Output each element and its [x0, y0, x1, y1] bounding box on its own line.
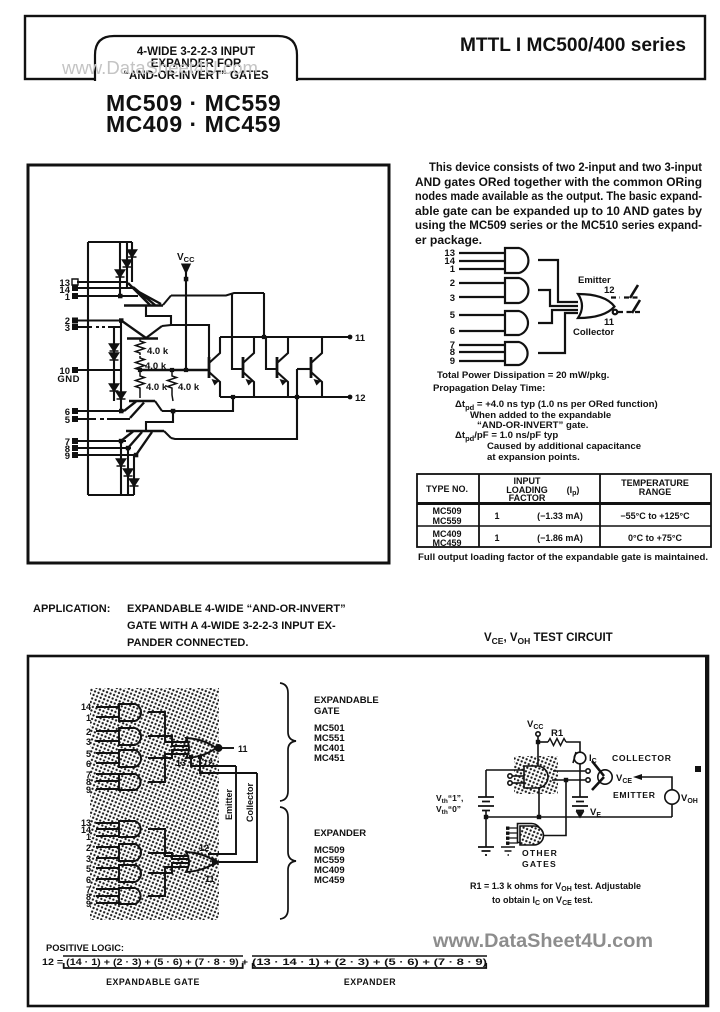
svg-text:VE: VE	[590, 807, 601, 819]
output transistor T2 base bar	[242, 357, 245, 378]
halftone background	[90, 688, 219, 920]
svg-text:MC559: MC559	[432, 516, 461, 526]
wire G4 to OR1	[148, 754, 188, 782]
svg-text:11: 11	[205, 874, 215, 884]
OR gate O1	[186, 738, 216, 758]
pin 10 GND wire	[77, 369, 121, 371]
multi-emitter transistor Q2	[122, 321, 146, 338]
svg-text:www.DataSheet4U.com: www.DataSheet4U.com	[432, 930, 653, 952]
wire G8 to OR2	[148, 867, 188, 896]
svg-text:TYPE NO.: TYPE NO.	[426, 484, 468, 494]
VCC node dot	[184, 277, 189, 282]
DUT stub2 terminal	[508, 774, 512, 778]
overline group 2	[252, 955, 487, 957]
pin 11 output rail	[220, 336, 350, 338]
svg-text:1: 1	[450, 264, 456, 275]
gate G8	[119, 888, 141, 904]
svg-text:13: 13	[176, 758, 186, 768]
svg-text:(−1.86 mA): (−1.86 mA)	[537, 533, 583, 543]
svg-text:5: 5	[450, 310, 456, 321]
battery bottom to rail	[485, 811, 487, 817]
svg-text:Total Power Dissipation = 20 m: Total Power Dissipation = 20 mW/pkg.	[437, 370, 609, 381]
Q1 base bar	[124, 304, 163, 307]
DUT input stub 3	[512, 782, 524, 784]
DUT top input from battery	[486, 769, 524, 771]
emitter vertical wire	[208, 766, 236, 854]
Q1 collector drop	[146, 306, 171, 325]
diode D3	[116, 270, 125, 277]
T3 base feed	[266, 337, 277, 369]
emitter arrow slash	[630, 285, 638, 298]
gate G3 inputs 5,6	[96, 753, 119, 763]
gate G2	[119, 728, 141, 745]
svg-text:1: 1	[86, 832, 91, 842]
svg-text:4.0 k: 4.0 k	[147, 346, 169, 357]
junction dots pins 7 8 9	[119, 439, 124, 444]
svg-text:PANDER CONNECTED.: PANDER CONNECTED.	[127, 637, 248, 649]
svg-text:GND: GND	[57, 374, 80, 385]
svg-text:www.DataSheet4U.com: www.DataSheet4U.com	[61, 58, 258, 78]
svg-text:4.0 k: 4.0 k	[145, 361, 167, 372]
svg-text:MC409 · MC459: MC409 · MC459	[106, 111, 281, 137]
gate G5 inputs 13,14,1	[96, 823, 119, 836]
svg-text:Caused by additional capacitan: Caused by additional capacitance	[487, 441, 641, 452]
output transistor T4 base bar	[310, 357, 313, 378]
svg-text:able gate can be expanded up t: able gate can be expanded up to 10 AND g…	[415, 204, 702, 218]
svg-text:EXPANDABLE GATE: EXPANDABLE GATE	[106, 977, 200, 987]
arrow VOH to VCE	[642, 777, 672, 790]
svg-text:3: 3	[450, 293, 455, 304]
svg-text:12: 12	[203, 758, 213, 768]
svg-text:9: 9	[86, 785, 91, 795]
output wedge	[592, 761, 604, 790]
svg-text:MTTL I MC500/400 series: MTTL I MC500/400 series	[460, 35, 686, 56]
wire G2 to OR1	[148, 736, 188, 746]
wire R1 to Ic meter	[566, 742, 580, 752]
diode D10	[130, 479, 139, 486]
junction dot pin6	[119, 409, 124, 414]
diode D1	[128, 250, 137, 257]
svg-text:using the MC509 series or the: using the MC509 series or the MC510 seri…	[415, 218, 702, 232]
wire G1 to OR1	[148, 712, 188, 742]
emitter open terminal	[586, 778, 590, 782]
diode D9	[124, 469, 133, 476]
svg-text:Collector: Collector	[245, 782, 255, 822]
T3 collector	[277, 337, 288, 363]
svg-text:VCE, VOH TEST CIRCUIT: VCE, VOH TEST CIRCUIT	[484, 632, 613, 646]
svg-text:MC459: MC459	[432, 538, 461, 548]
wire gate B to OR	[538, 290, 578, 306]
pin 6 wire	[77, 410, 124, 412]
ground symbol 1	[478, 847, 494, 855]
svg-text:6: 6	[450, 326, 455, 337]
svg-text:EXPANDABLE 4-WIDE “AND-OR-INVE: EXPANDABLE 4-WIDE “AND-OR-INVERT”	[127, 603, 346, 615]
gate G2 inputs 2,3	[96, 731, 119, 741]
multi-emitter transistor Q4 slants	[121, 432, 152, 456]
AND gate D inputs 7,8,9	[459, 345, 505, 361]
svg-text:VCE: VCE	[616, 773, 632, 785]
svg-text:1: 1	[494, 533, 499, 543]
DUT input stub 2	[512, 775, 524, 777]
collector vertical wire	[219, 773, 257, 862]
svg-text:at expansion points.: at expansion points.	[487, 452, 580, 463]
svg-text:POSITIVE LOGIC:: POSITIVE LOGIC:	[46, 943, 124, 953]
DUT stub3 terminal	[508, 781, 512, 785]
title tab	[95, 36, 297, 82]
other gates input stubs	[508, 828, 518, 843]
svg-text:3: 3	[86, 854, 91, 864]
gate G7 inputs 5,6	[96, 868, 119, 879]
svg-text:9: 9	[450, 356, 455, 367]
VE arrow to rail	[577, 811, 583, 817]
svg-text:APPLICATION:: APPLICATION:	[33, 603, 110, 615]
svg-text:4-WIDE 3-2-2-3 INPUT: 4-WIDE 3-2-2-3 INPUT	[137, 46, 255, 58]
wire gate D to OR	[538, 313, 578, 353]
DUT gate stipple halo	[514, 756, 558, 794]
clamp wire x128	[127, 448, 129, 495]
battery VE	[572, 797, 588, 811]
VCC lead	[185, 272, 187, 370]
O1 output wire to 11	[222, 747, 234, 749]
Ic meter	[574, 752, 586, 764]
T1 emitter	[209, 372, 220, 397]
OR gate with bubble	[578, 294, 615, 318]
svg-text:5: 5	[86, 864, 91, 874]
wire G3 to OR1	[148, 750, 188, 758]
wire down to pin11 rail	[263, 293, 265, 337]
svg-text:MC459: MC459	[314, 875, 345, 886]
svg-text:9: 9	[86, 899, 91, 909]
svg-text:9: 9	[65, 451, 70, 462]
rail junction dots	[484, 815, 488, 819]
wire to R1	[538, 741, 548, 743]
VCE meter	[598, 770, 612, 784]
wire Q1 emitter to node	[171, 293, 264, 296]
Q3 base bar	[129, 400, 155, 403]
clamp wire x120	[119, 242, 121, 296]
pin 2 wire	[77, 319, 122, 321]
gate G1	[119, 704, 141, 721]
multi-emitter transistor Q1 slants	[128, 283, 161, 305]
ground bus left rail	[87, 242, 89, 495]
resistor R3 4.0k	[136, 372, 145, 398]
Q2 base bar	[127, 337, 158, 340]
pin 9 wire	[77, 454, 137, 456]
svg-text:11: 11	[355, 333, 366, 344]
Ic meter needle	[573, 752, 576, 763]
svg-text:3: 3	[86, 737, 91, 747]
svg-text:5: 5	[65, 415, 71, 426]
VOH wire down to rail	[671, 804, 673, 817]
svg-text:3: 3	[65, 323, 70, 334]
output transistor T1 base bar	[208, 357, 211, 378]
T4 collector	[311, 337, 322, 363]
diode D7	[117, 392, 126, 399]
svg-text:12: 12	[355, 393, 366, 404]
other gate	[520, 826, 544, 845]
svg-text:12: 12	[604, 285, 615, 296]
diode D6	[110, 384, 119, 391]
svg-text:2: 2	[86, 843, 91, 853]
svg-text:VCC: VCC	[527, 719, 543, 731]
pin 12 output rail	[220, 396, 350, 398]
AND gate B inputs 2,3	[459, 283, 505, 297]
gate G7	[119, 865, 141, 882]
clamp wire x134	[133, 455, 135, 495]
other gates input dots	[506, 827, 509, 830]
svg-text:12 = (14 · 1) + (2 · 3) + (5 ·: 12 = (14 · 1) + (2 · 3) + (5 · 6) + (7 ·…	[42, 957, 248, 967]
R1 node dot	[536, 740, 540, 744]
svg-text:MC509: MC509	[432, 506, 461, 516]
diode D2	[123, 260, 132, 267]
AND gate A inputs 13,14,1	[459, 253, 505, 269]
pin 8 wire	[77, 447, 131, 449]
other gate shadow outline	[518, 824, 542, 843]
svg-text:1: 1	[494, 511, 499, 521]
AND gate C inputs 5,6	[459, 315, 505, 331]
wire rail to ground	[485, 817, 487, 847]
gate G8 inputs 7,8,9	[96, 889, 119, 903]
resistor R4 4.0k	[168, 370, 177, 401]
T3 emitter	[277, 372, 288, 397]
svg-text:0°C to +75°C: 0°C to +75°C	[628, 533, 682, 543]
T1 emitter arrow	[212, 379, 220, 386]
T2 emitter arrow	[246, 379, 254, 386]
svg-text:GATE: GATE	[314, 706, 340, 717]
brace expandable	[280, 683, 296, 801]
svg-text:(Ip): (Ip)	[567, 485, 580, 497]
svg-text:12: 12	[199, 843, 209, 853]
multi-emitter transistor Q3 slants	[124, 402, 144, 419]
svg-text:R1 = 1.3 k ohms for VOH test.: R1 = 1.3 k ohms for VOH test. Adjustable	[470, 881, 641, 893]
wire Ic to collector node	[579, 764, 581, 797]
thick right border	[705, 656, 709, 1006]
pin 5 wire	[77, 418, 130, 420]
bottom rail	[486, 816, 672, 818]
gate G6 inputs 2,3	[96, 847, 119, 858]
svg-text:EXPANDER: EXPANDER	[314, 828, 366, 839]
svg-text:IC: IC	[589, 753, 597, 765]
wire G7 to OR2	[148, 863, 188, 873]
svg-text:6: 6	[86, 875, 91, 885]
diode D5	[110, 353, 119, 360]
diode D4	[110, 344, 119, 351]
svg-text:2: 2	[450, 278, 455, 289]
svg-text:er package.: er package.	[415, 233, 482, 247]
wire Q2 emitter out	[162, 325, 209, 357]
pin 12 dot	[348, 395, 353, 400]
svg-text:Vth“0”: Vth“0”	[436, 804, 461, 816]
ground symbol 2	[501, 847, 515, 855]
pin terminals	[72, 279, 78, 458]
battery top wire	[485, 770, 487, 797]
svg-text:nodes made available as the ou: nodes made available as the output. The …	[415, 189, 702, 203]
gate G1 inputs 14,1	[96, 707, 119, 717]
T2 collector	[243, 337, 254, 363]
svg-text:Emitter: Emitter	[224, 788, 234, 820]
svg-text:EXPANDER: EXPANDER	[344, 977, 396, 987]
svg-text:GATE WITH A 4-WIDE 3-2-2-3 INP: GATE WITH A 4-WIDE 3-2-2-3 INPUT EX-	[127, 620, 336, 632]
pin 14 wire	[77, 287, 133, 289]
brace expander	[280, 807, 296, 919]
pin 11 dot	[348, 335, 353, 340]
R4 to Q3 out junction	[171, 409, 176, 414]
underbracket expandable gate	[64, 963, 243, 968]
collector line to terminal	[553, 770, 585, 772]
T4 emitter arrow	[314, 379, 322, 386]
svg-text:FACTOR: FACTOR	[509, 493, 546, 503]
wire G5 to OR2	[148, 829, 188, 856]
pin 1 wire	[77, 295, 138, 297]
box	[28, 165, 389, 563]
svg-text:AND gates ORed together with t: AND gates ORed together with the common …	[415, 175, 702, 189]
svg-text:to obtain IC on VCE test.: to obtain IC on VCE test.	[492, 895, 593, 907]
clamp wire x121	[120, 321, 122, 411]
wire G6 to OR2	[148, 853, 188, 859]
DUT bottom wire to rail	[538, 788, 540, 817]
resistor R1 4.0k	[136, 338, 145, 355]
svg-text:R1: R1	[551, 728, 564, 739]
other gates tie bar to ground	[507, 843, 509, 845]
VCC rail	[140, 369, 209, 372]
clamp wire x114	[113, 343, 115, 401]
clamp wire x127	[126, 242, 128, 288]
feed to Q4 base	[146, 411, 173, 431]
pin 13 wire	[77, 281, 128, 283]
svg-text:2: 2	[86, 727, 91, 737]
gate G6	[119, 844, 141, 861]
svg-text:1: 1	[86, 713, 91, 723]
junction dot rail12 x297	[295, 395, 299, 399]
Q1 emitter out slant	[163, 296, 171, 306]
overline group 1	[63, 955, 243, 957]
Q4 collector out slant	[164, 431, 171, 438]
svg-text:6: 6	[86, 759, 91, 769]
collector arrow slash	[632, 300, 640, 313]
svg-text:VCC: VCC	[177, 252, 195, 264]
resistor R1	[548, 739, 566, 746]
svg-text:This device consists of two 2-: This device consists of two 2-input and …	[429, 160, 702, 174]
output transistor T3 base bar	[276, 357, 279, 378]
junction dot pin1	[118, 294, 123, 299]
Q4 base bar	[126, 430, 164, 433]
resistor R2 4.0k	[136, 356, 145, 371]
svg-text:EXPANDABLE: EXPANDABLE	[314, 695, 379, 706]
clamp wire x132	[131, 242, 133, 282]
wire Q4 out long	[171, 369, 297, 439]
pin13 stub	[191, 757, 236, 766]
svg-text:OTHER: OTHER	[522, 848, 558, 858]
T2 emitter	[243, 372, 254, 397]
svg-text:Full output loading factor of: Full output loading factor of the expand…	[418, 552, 708, 563]
svg-text:1: 1	[65, 292, 71, 303]
T1 collector	[209, 337, 220, 363]
T4 base feed	[297, 368, 311, 370]
pin3 drop to clamp	[113, 327, 115, 343]
VCC arrowhead	[183, 265, 190, 273]
svg-text:MC451: MC451	[314, 753, 345, 764]
svg-text:14: 14	[81, 702, 91, 712]
svg-text:4.0 k: 4.0 k	[178, 382, 200, 393]
svg-text:(13 · 14 · 1) + (2 · 3) + (5 ·: (13 · 14 · 1) + (2 · 3) + (5 · 6) + (7 ·…	[252, 957, 487, 967]
VCC wire down into gate	[537, 736, 539, 766]
rail junction dots	[138, 368, 142, 372]
collector dashed output	[618, 311, 642, 313]
bottom ground loop wire	[88, 494, 134, 496]
wire Q3 out to pin12 rail	[162, 397, 233, 411]
pin 7 wire	[77, 440, 126, 442]
O2 output blob	[212, 857, 220, 867]
wire gate C to OR	[538, 310, 578, 323]
emitter line to terminal	[552, 779, 585, 781]
emitter dashed output	[611, 296, 638, 298]
battery Vth	[478, 797, 494, 811]
gate G4 inputs 7,8,9	[96, 774, 119, 789]
underbracket expander	[253, 963, 487, 968]
DUT gate	[524, 766, 548, 788]
junction dot on emitter line	[564, 778, 568, 782]
T4 emitter	[311, 372, 322, 397]
collector open terminal	[586, 769, 590, 773]
gate G4	[119, 774, 141, 790]
clamp wire x121b	[120, 441, 122, 495]
svg-text:4.0 k: 4.0 k	[146, 382, 168, 393]
stub junction dots	[189, 755, 193, 759]
pin12 stub	[200, 757, 257, 773]
scan artifact mark	[695, 766, 701, 772]
svg-text:RANGE: RANGE	[639, 487, 672, 497]
svg-text:(−1.33 mA): (−1.33 mA)	[537, 511, 583, 521]
OR gate O2	[186, 852, 216, 872]
svg-text:VOH: VOH	[681, 793, 698, 805]
header band	[25, 16, 705, 79]
junction dot pin2	[119, 318, 124, 323]
T2 base feed	[232, 294, 243, 369]
svg-text:5: 5	[86, 749, 91, 759]
VOH meter	[665, 790, 679, 804]
wire gate A to OR	[538, 260, 578, 302]
svg-text:EMITTER: EMITTER	[613, 790, 656, 800]
other gates output wire up	[544, 780, 567, 836]
T3 emitter arrow	[280, 379, 288, 386]
top ground loop wire	[88, 241, 132, 243]
gate G5	[119, 821, 141, 837]
pin 3 wire dash-dot	[77, 326, 122, 328]
gate G3	[119, 750, 141, 767]
svg-text:11: 11	[238, 744, 248, 754]
VCC terminal	[536, 732, 540, 736]
O1 bubble	[216, 745, 222, 751]
svg-text:Collector: Collector	[573, 327, 614, 338]
svg-text:Propagation Delay Time:: Propagation Delay Time:	[433, 383, 545, 394]
svg-text:GATES: GATES	[522, 859, 557, 869]
svg-text:COLLECTOR: COLLECTOR	[612, 753, 672, 763]
svg-text:−55°C to +125°C: −55°C to +125°C	[620, 511, 690, 521]
diode D8	[117, 459, 126, 466]
Q3 collector out slant	[155, 401, 162, 411]
